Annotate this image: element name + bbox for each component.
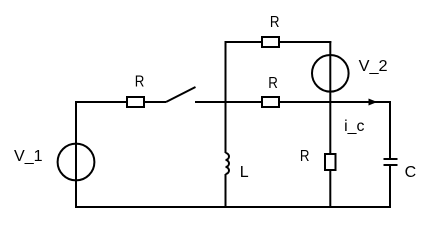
resistor R3 (middle wire) xyxy=(262,97,279,107)
resistor R1 (series with switch) xyxy=(127,97,144,107)
wire: capacitor top lead xyxy=(389,101,391,159)
svg-text:R: R xyxy=(300,148,310,165)
voltage source V2 circle xyxy=(312,55,349,92)
resistor R2 (top branch) xyxy=(262,37,279,47)
capacitor C1 plates xyxy=(384,159,398,165)
wire: top branch horizontal xyxy=(225,41,332,43)
current arrow i_c head xyxy=(369,99,378,106)
svg-text:V_2: V_2 xyxy=(359,58,388,75)
wire: left vertical through V_1 xyxy=(75,101,77,207)
wire: bottom horizontal xyxy=(75,206,391,208)
wire: right-middle vertical through V_2 and resistor xyxy=(329,41,331,207)
wire: middle vertical, top wire down to inductor xyxy=(225,41,227,153)
svg-text:R: R xyxy=(135,73,145,90)
wire: middle horizontal, V_1 top to switch left contact xyxy=(75,101,166,103)
wire: capacitor bottom lead xyxy=(389,165,391,207)
svg-text:R: R xyxy=(268,75,278,92)
svg-text:i_c: i_c xyxy=(344,118,364,135)
svg-text:C: C xyxy=(405,164,417,181)
svg-text:V_1: V_1 xyxy=(14,148,43,165)
voltage source V1 circle xyxy=(58,144,95,181)
wire: middle vertical, inductor to bottom wire xyxy=(225,174,227,207)
wire: middle horizontal, switch right contact to right corner xyxy=(195,101,390,103)
svg-text:R: R xyxy=(270,14,280,31)
svg-text:L: L xyxy=(240,164,249,181)
resistor R4 (vertical branch) xyxy=(325,154,336,170)
switch S1 blade xyxy=(166,87,196,102)
inductor L1 coil xyxy=(226,153,230,174)
